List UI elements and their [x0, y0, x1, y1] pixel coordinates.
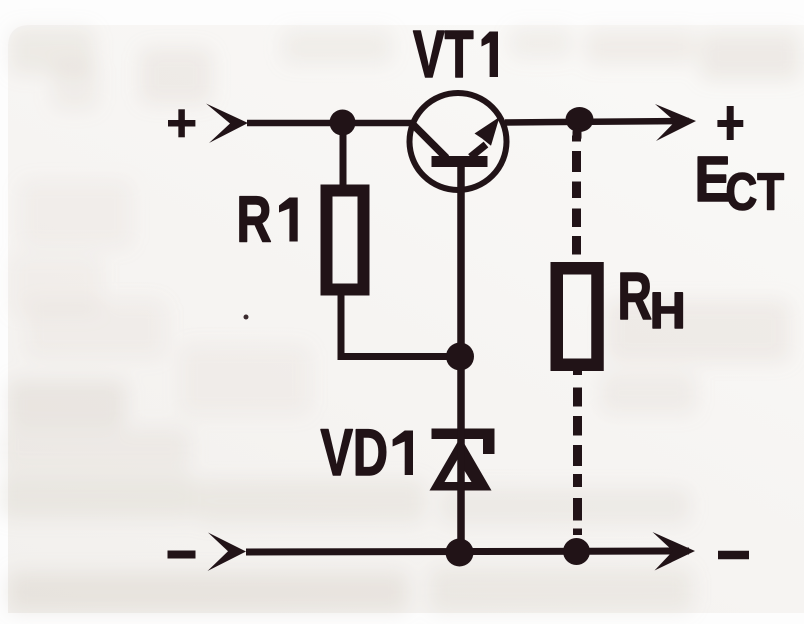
VD1 anode triangle — [430, 437, 492, 491]
VT1 base bar — [432, 156, 488, 167]
wire top rail right segment — [505, 121, 689, 123]
wire RH dashed lower — [573, 368, 582, 535]
svg-text:R: R — [618, 259, 653, 334]
load resistor RH — [557, 268, 598, 365]
VT1 emitter slant — [471, 145, 487, 158]
VT1 collector slant — [413, 125, 447, 159]
VT1 circle — [410, 93, 507, 190]
VD1 cathode bar with bent leg — [432, 429, 495, 455]
output arrow top-right — [655, 104, 696, 141]
svg-text:CT: CT — [726, 164, 785, 222]
svg-text:VT: VT — [413, 17, 474, 92]
plus terminal top-right — [717, 106, 743, 140]
resistor R1 — [327, 191, 364, 290]
input arrow bottom-left — [208, 533, 247, 572]
VT1 emitter arrowhead — [475, 117, 500, 146]
wire R1 top — [340, 122, 347, 191]
wire bottom rail — [246, 551, 689, 552]
node bottom-left junction — [446, 539, 474, 567]
node top-right junction — [566, 107, 594, 132]
node bottom-right junction — [563, 538, 590, 565]
wire top rail left segment — [247, 120, 414, 127]
svg-text:R: R — [237, 183, 272, 256]
input arrow top-left — [206, 104, 248, 144]
transistor VT1 — [410, 93, 507, 190]
plus terminal top-left — [168, 109, 195, 137]
ink speck — [244, 315, 249, 320]
wire base/emitter vertical — [457, 164, 465, 552]
node base junction — [446, 343, 474, 371]
svg-text:H: H — [650, 282, 686, 339]
zener diode VD1 — [430, 429, 495, 491]
wire R1 to base node — [338, 353, 463, 360]
svg-text:VD: VD — [321, 415, 389, 489]
minus terminal bottom-right — [718, 551, 749, 560]
minus terminal bottom-left — [168, 551, 196, 559]
node top-left junction — [330, 110, 356, 136]
wire RH dashed upper — [572, 136, 581, 255]
wire R1 bottom — [338, 290, 345, 353]
output arrow bottom-right — [653, 532, 696, 571]
